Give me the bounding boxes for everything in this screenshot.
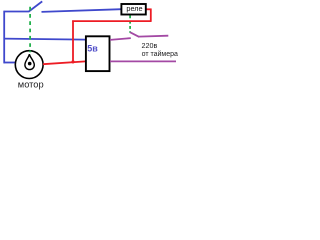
motor M1 circle	[15, 51, 43, 79]
power supply 5v box	[86, 36, 110, 71]
wire blue top right to relay	[42, 9, 122, 12]
junction node	[71, 60, 74, 63]
svg-text:5в: 5в	[87, 44, 98, 54]
wire blue middle to 5v box	[4, 39, 86, 40]
wire red motor to 5v box	[43, 61, 86, 64]
svg-text:220в: 220в	[142, 41, 158, 50]
wire red relay output	[146, 8, 152, 10]
wire red right vertical	[150, 9, 152, 22]
green dashed control line from relay	[129, 15, 131, 32]
wire red horizontal under relay	[72, 20, 151, 22]
wire purple 220v top to contact	[110, 38, 131, 40]
wire blue left vertical	[3, 11, 5, 64]
wire blue bottom to motor	[4, 62, 16, 64]
switch S1 blade (blue, open)	[29, 1, 42, 11]
relay U1 box	[121, 4, 145, 15]
svg-text:от таймера: от таймера	[142, 50, 178, 58]
green dashed control line to switch S1	[29, 7, 31, 53]
motor M1 drop icon	[25, 54, 34, 69]
wire red vertical riser	[72, 20, 74, 62]
motor M1 center dot	[28, 62, 32, 66]
svg-text:мотор: мотор	[18, 80, 44, 90]
wire purple timer line	[110, 60, 176, 62]
svg-text:реле: реле	[126, 4, 142, 13]
wire blue top horizontal	[4, 11, 30, 13]
wire purple 220v right segment	[139, 35, 169, 38]
relay contact blade (purple, open)	[130, 32, 139, 37]
